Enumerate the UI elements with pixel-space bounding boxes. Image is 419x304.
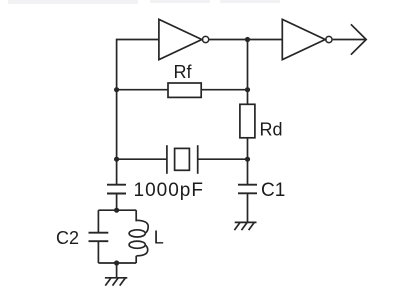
wire: tank bottom rail — [98, 262, 136, 264]
svg-text:Rf: Rf — [174, 62, 193, 82]
wire: crystal right lead — [198, 158, 248, 160]
wire: right rail, node A down to Rd — [247, 40, 249, 105]
svg-text:Rd: Rd — [260, 120, 283, 140]
node: tank bottom / ground — [114, 260, 119, 265]
inverter U2 — [282, 19, 325, 59]
crystal X1 — [167, 145, 198, 174]
capacitor C2 — [89, 233, 109, 242]
wire: cap to tank top node — [116, 194, 118, 211]
wire: tank right branch lower — [135, 256, 137, 263]
wire: tank top rail — [98, 209, 136, 211]
wire: tank to ground — [116, 263, 118, 278]
resistor Rd — [240, 104, 255, 138]
svg-text:C1: C1 — [261, 180, 285, 201]
wire: U1 output to U2 input — [209, 39, 282, 41]
ground (right) — [234, 222, 256, 230]
wire: tank left branch lower — [97, 241, 99, 263]
inductor L — [129, 220, 148, 256]
node: left rail / crystal — [114, 157, 119, 162]
wire: Rf left lead — [117, 89, 168, 91]
wire: C1 to ground — [247, 193, 249, 222]
faint cropped text remnant top edge — [8, 0, 280, 4]
wire: input to inverter U1 — [117, 40, 159, 185]
wire: tank left branch upper — [97, 210, 99, 233]
node: tank top — [114, 208, 119, 213]
svg-text:C2: C2 — [56, 228, 79, 248]
output arrow — [351, 24, 366, 54]
capacitor C1 — [238, 185, 257, 194]
svg-text:L: L — [154, 228, 164, 248]
wire: tank right branch upper — [135, 210, 137, 221]
ground (left) — [105, 278, 127, 286]
node A: U1 out / Rd branch — [245, 37, 250, 42]
svg-text:1000pF: 1000pF — [134, 180, 204, 201]
node: right rail / Rf — [245, 87, 250, 92]
wire: Rd bottom to crystal node — [247, 138, 249, 185]
wire: U2 output — [333, 39, 366, 41]
wire: Rf right lead — [201, 89, 247, 91]
resistor Rf — [168, 83, 201, 97]
capacitor 1000pF — [107, 185, 126, 194]
inverter U1 — [159, 19, 202, 59]
node: left rail / Rf — [114, 87, 119, 92]
node: right rail / crystal — [245, 157, 250, 162]
wire: crystal left lead — [117, 158, 167, 160]
